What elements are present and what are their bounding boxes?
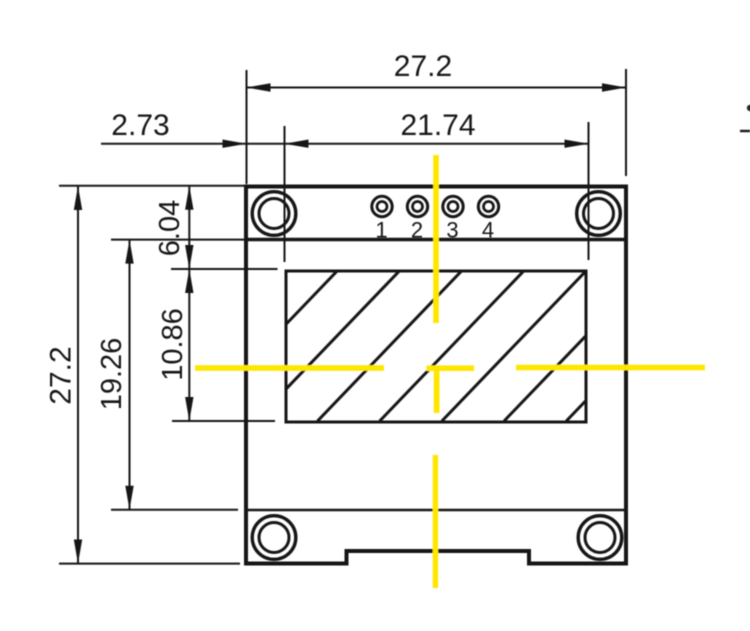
svg-text:10.86: 10.86	[157, 308, 189, 381]
centerline horizontal middle segment	[427, 365, 475, 371]
svg-text:3: 3	[446, 218, 458, 243]
cropped dimension text fragment at right edge	[747, 105, 750, 111]
dimension 27.2 top: dimension line	[247, 87, 627, 89]
dimension 27.2 top: left arrow	[247, 83, 271, 91]
dimension 27.2 top: extension line right	[625, 69, 627, 176]
svg-text:21.74: 21.74	[400, 109, 475, 142]
svg-text:2.73: 2.73	[111, 109, 169, 142]
mounting hole bottom-right	[578, 516, 622, 560]
dimension 6.04: down arrow	[185, 245, 193, 269]
centerline horizontal right segment	[516, 365, 705, 371]
dimension 10.86: text	[157, 308, 189, 381]
dimension 19.26: up arrow	[125, 240, 133, 264]
left extension line at bottom strip	[111, 509, 238, 511]
svg-text:1: 1	[375, 218, 387, 243]
dimension 27.2 left: text	[45, 346, 78, 404]
centerline vertical upper segment	[433, 155, 439, 323]
dimension 21.74: extension line right	[588, 122, 590, 260]
dimension 6.04: up arrow	[185, 186, 193, 210]
dimension 6.04: text	[154, 200, 186, 256]
pin header strip line	[244, 238, 626, 241]
left extension line at board top	[59, 185, 244, 187]
bottom strip line	[244, 509, 626, 512]
dimension 6.04 / 10.86: shared dimension line	[188, 186, 190, 421]
svg-text:6.04: 6.04	[154, 200, 186, 256]
dimension 21.74: right arrow	[565, 140, 589, 148]
svg-text:4: 4	[482, 218, 494, 243]
left extension line at display top	[171, 268, 278, 270]
dimension 19.26: down arrow	[125, 486, 133, 510]
centerline vertical lower segment	[433, 455, 438, 588]
mounting hole bottom-left	[252, 516, 296, 560]
pin hole 4	[478, 196, 498, 216]
dimension 10.86: up arrow	[185, 269, 193, 293]
dimension 27.2 top: extension line left	[246, 70, 248, 184]
centerline vertical middle segment	[434, 366, 440, 413]
dimension 21.74: left arrow	[285, 140, 309, 148]
dimension 10.86: down arrow	[185, 397, 193, 421]
dimension 27.2 left: dimension line	[77, 186, 79, 564]
pin hole 3	[443, 196, 463, 216]
mounting hole top-right	[577, 192, 621, 236]
dimension 2.73 / 21.74 shared dimension line	[101, 143, 589, 145]
display active area outline	[286, 271, 586, 422]
left extension line at board bottom	[59, 563, 240, 565]
dimension 27.2 left: up arrow	[74, 186, 82, 210]
mounting hole top-left	[252, 192, 296, 236]
svg-text:27.2: 27.2	[394, 50, 452, 83]
centerline horizontal left segment	[195, 365, 384, 371]
svg-text:2: 2	[411, 218, 423, 243]
left extension line at pin strip	[111, 239, 244, 241]
pin hole 2	[407, 196, 427, 216]
dimension 27.2 left: down arrow	[74, 540, 82, 564]
left extension line at display bottom	[172, 420, 275, 422]
dimension 21.74: extension line left	[284, 126, 286, 262]
svg-text:27.2: 27.2	[45, 346, 78, 404]
hatch lines	[193, 270, 711, 421]
svg-text:19.26: 19.26	[96, 338, 128, 411]
pin hole 1	[372, 196, 392, 216]
dimension 2.73: arrow pointing right at board edge	[223, 140, 247, 148]
dimension 27.2 top: right arrow	[602, 83, 626, 91]
cropped dimension line at right edge	[740, 130, 750, 132]
dimension 19.26: text	[96, 338, 128, 411]
dimension 19.26: dimension line	[129, 240, 131, 510]
board outline	[246, 187, 626, 564]
